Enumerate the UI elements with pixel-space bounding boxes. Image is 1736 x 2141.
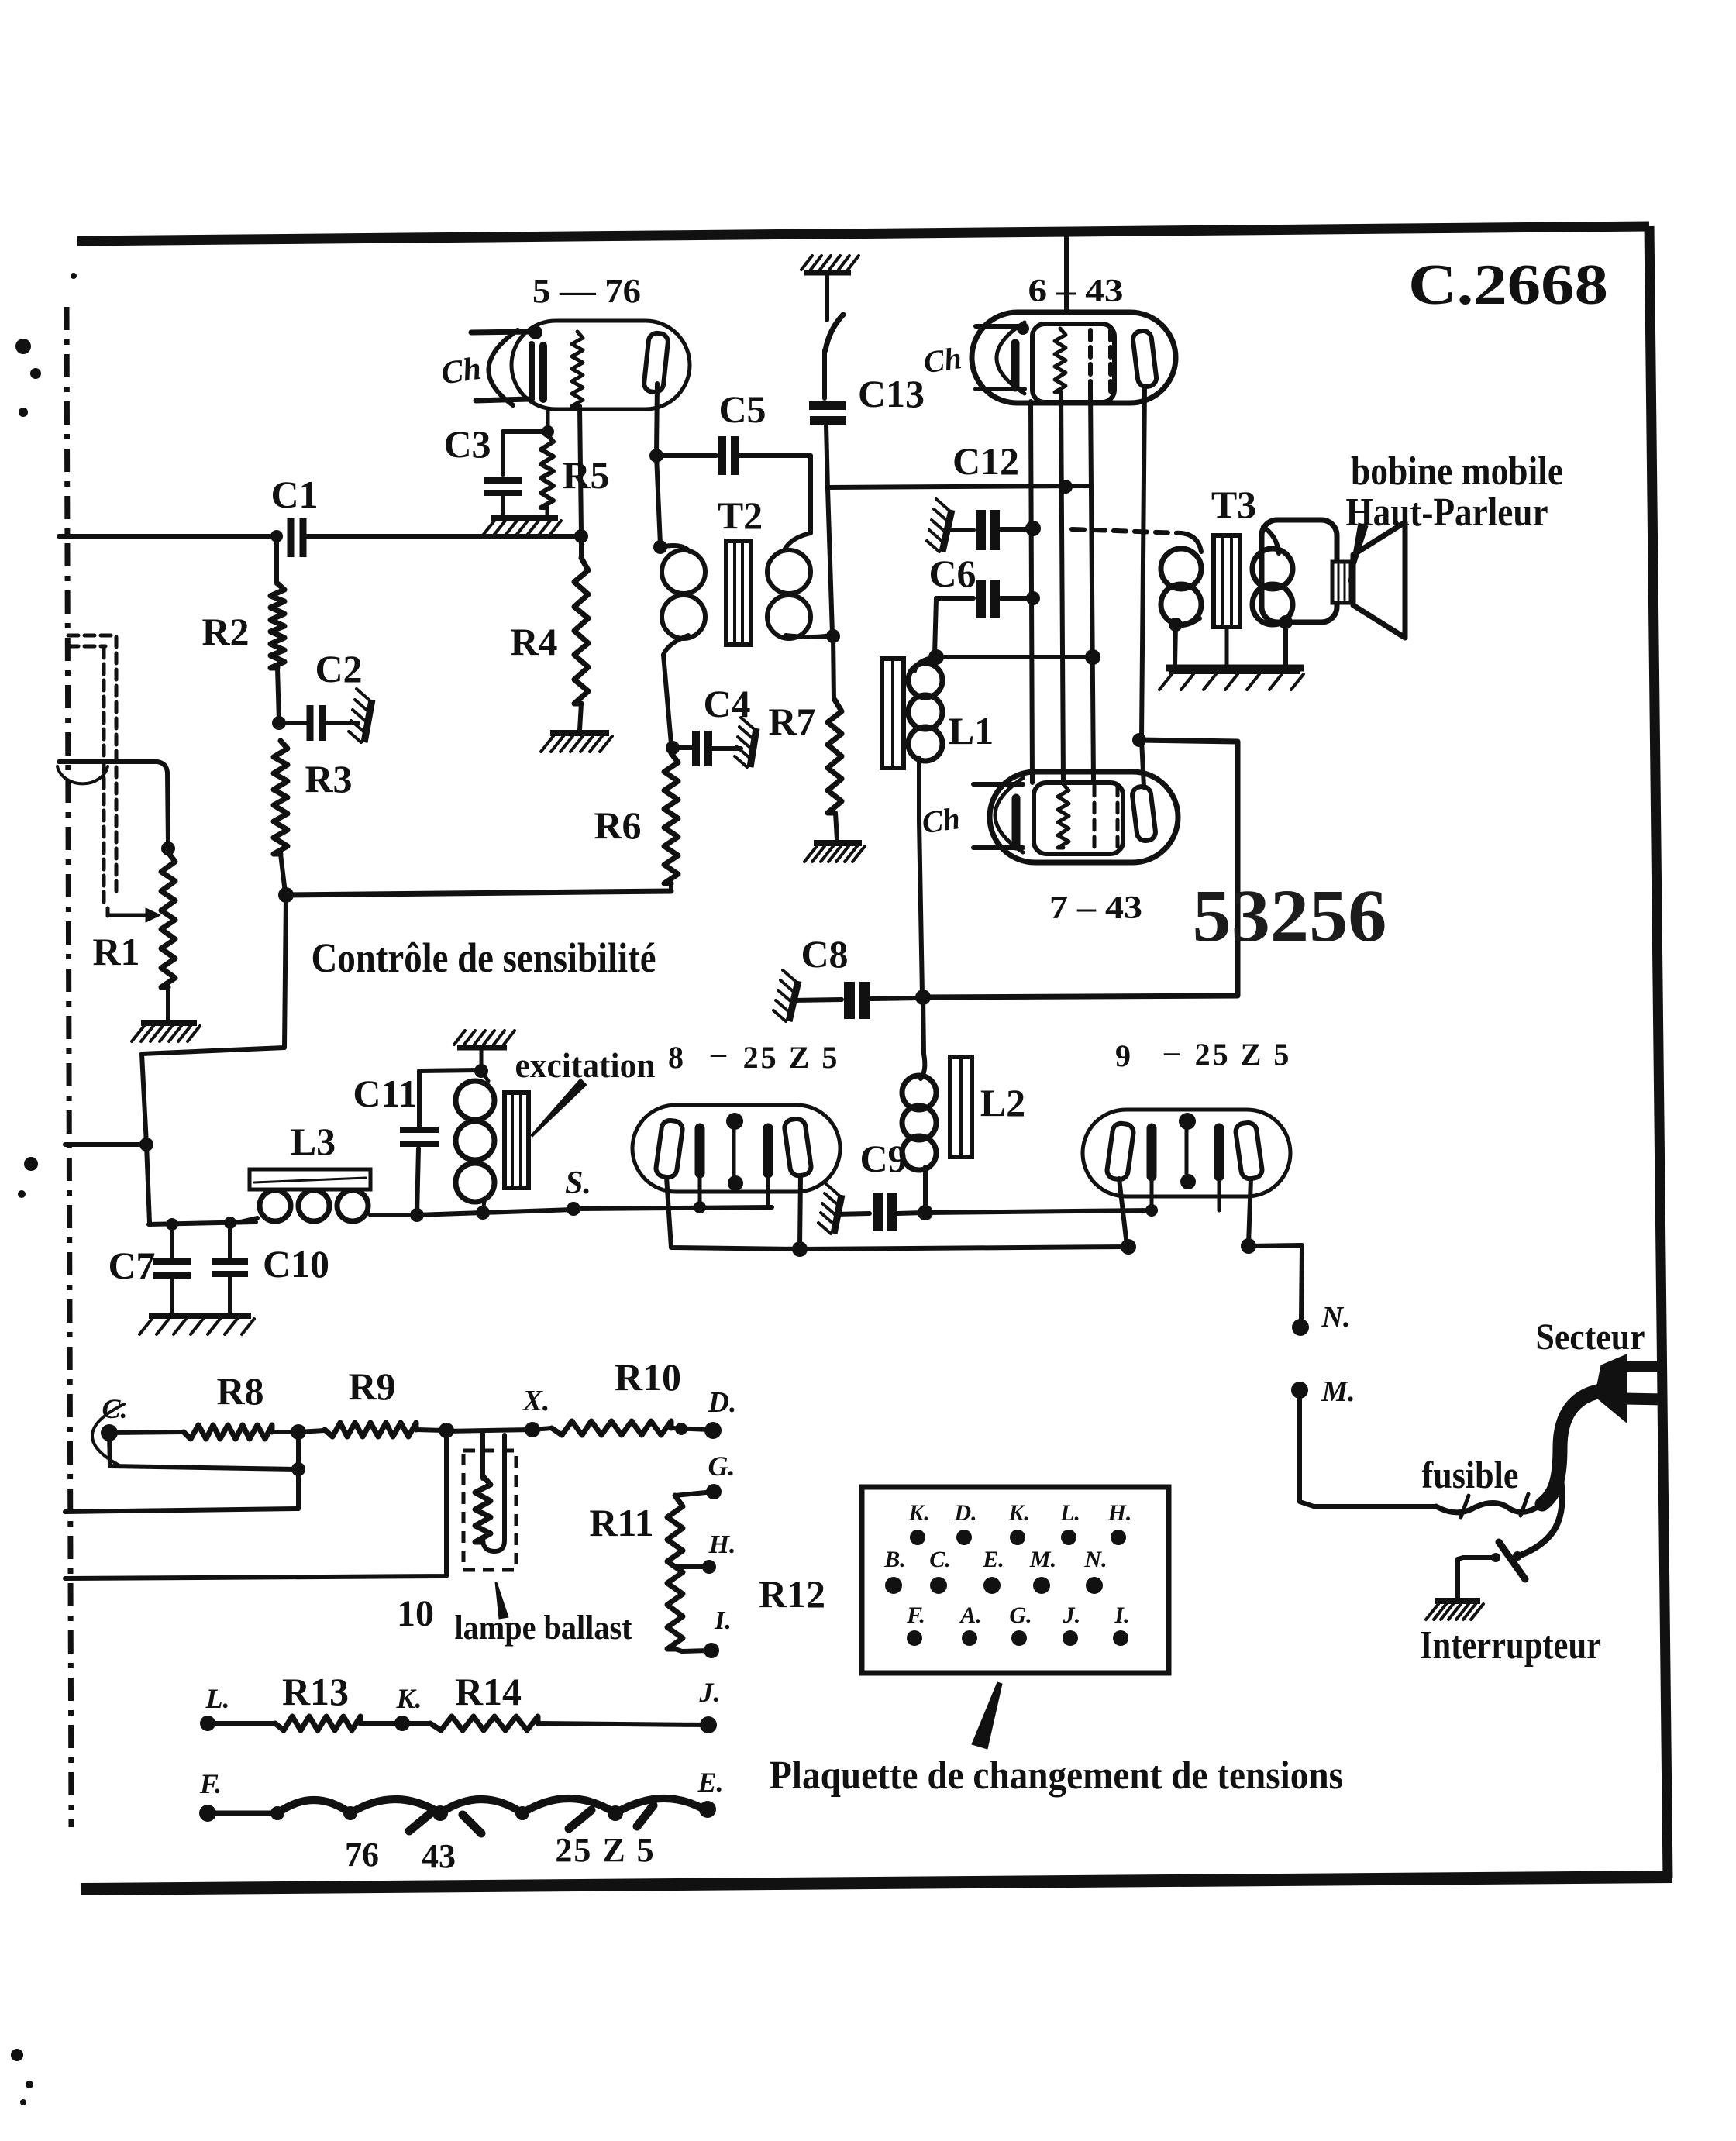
wire R2 to C2 node xyxy=(277,668,279,721)
node D terminal xyxy=(704,1422,722,1439)
svg-text:R2: R2 xyxy=(201,610,249,653)
label 76 xyxy=(345,1836,379,1874)
wire R1 to ground xyxy=(166,987,170,1020)
switch blade C13 xyxy=(825,315,843,350)
node L1 top xyxy=(928,649,944,665)
svg-text:K.: K. xyxy=(395,1683,422,1714)
node box corner xyxy=(1132,733,1146,747)
wire V5 heater down xyxy=(580,406,581,533)
tube V7 heater xyxy=(1058,784,1069,848)
node R1 top xyxy=(161,842,175,855)
plug secteur xyxy=(1595,1354,1665,1423)
wire cathode from tube xyxy=(546,411,550,432)
node E terminal xyxy=(699,1801,716,1818)
svg-text:F.: F. xyxy=(199,1768,222,1799)
voice coil frame xyxy=(1262,520,1337,622)
node T2 primary top xyxy=(653,540,667,554)
wire C1 junction down xyxy=(274,536,279,583)
wire plate down xyxy=(656,384,657,453)
ground bar C4 xyxy=(735,718,756,767)
label J. xyxy=(699,1677,721,1708)
wire V8 left plate down xyxy=(666,1177,800,1249)
wire bottom return xyxy=(65,1430,446,1578)
tube V7 pins dashed xyxy=(1094,786,1118,848)
tube V7 grid lines xyxy=(973,784,1023,848)
margin ink specks xyxy=(11,273,77,2105)
svg-text:K.: K. xyxy=(908,1500,930,1526)
label 7-43 xyxy=(1049,890,1142,926)
wire V6 heater down xyxy=(1061,392,1063,783)
wire top to tube6 xyxy=(1064,232,1069,313)
node L terminal xyxy=(200,1716,215,1731)
node C7 top xyxy=(166,1218,178,1231)
wire T3 primary gnd xyxy=(1175,625,1176,665)
wire bias bus xyxy=(286,891,671,895)
svg-text:–: – xyxy=(1163,1034,1180,1069)
svg-text:R6: R6 xyxy=(594,804,641,847)
resistor R14 xyxy=(402,1716,705,1730)
svg-text:R4: R4 xyxy=(510,620,557,663)
wire bus to S xyxy=(483,1210,573,1213)
node C8 junction xyxy=(915,990,931,1005)
svg-text:C10: C10 xyxy=(263,1242,329,1286)
wire V8 heater pins xyxy=(694,1173,768,1213)
ballast arrow xyxy=(495,1582,508,1619)
label Controle xyxy=(312,935,656,981)
svg-text:T2: T2 xyxy=(718,494,763,537)
svg-text:L2: L2 xyxy=(980,1081,1025,1124)
ground below C7 C10 xyxy=(139,1316,254,1334)
tube V7 grid arc xyxy=(995,778,1023,852)
node C10 top xyxy=(224,1217,236,1229)
label 9-25Z5 xyxy=(1115,1034,1291,1073)
svg-text:X.: X. xyxy=(522,1385,550,1417)
tube V6 grid lines xyxy=(976,322,1029,389)
label Ch V6 xyxy=(921,340,964,380)
node R8 R9 xyxy=(291,1424,306,1440)
wire switch to C13 xyxy=(822,350,827,398)
capacitor C9 xyxy=(835,1193,924,1231)
tube V8 envelope xyxy=(632,1105,840,1192)
ground bar C2 xyxy=(349,689,372,742)
wire C5 to T2 secondary xyxy=(808,456,813,532)
antenna hook arc xyxy=(57,766,108,783)
label R11 xyxy=(589,1501,653,1544)
voice coil bar xyxy=(1332,562,1351,603)
cord to switch xyxy=(1521,1469,1562,1555)
svg-text:–: – xyxy=(710,1035,727,1070)
svg-text:L.: L. xyxy=(1059,1500,1080,1526)
svg-text:I.: I. xyxy=(1114,1602,1129,1628)
transformer T2 primary xyxy=(660,546,705,655)
speaker pointer xyxy=(1348,523,1368,582)
tube V6 heater xyxy=(1055,329,1066,392)
wire V6 pin3 down xyxy=(1090,391,1094,783)
resistor R11 xyxy=(667,1492,714,1651)
resistor R1 xyxy=(161,852,175,987)
svg-text:N.: N. xyxy=(1083,1547,1107,1572)
tube V6 grid arc xyxy=(997,322,1025,394)
node excitation top xyxy=(474,1064,488,1078)
label excitation xyxy=(515,1045,656,1085)
label H. xyxy=(708,1530,736,1559)
lamp ballast loop xyxy=(475,1431,505,1551)
speaker horn xyxy=(1353,522,1405,638)
svg-text:R9: R9 xyxy=(348,1365,395,1408)
wire plates bus xyxy=(800,1247,1128,1249)
svg-text:bobine mobile: bobine mobile xyxy=(1351,449,1563,494)
capacitor C4 xyxy=(673,682,751,766)
svg-text:8: 8 xyxy=(668,1040,684,1075)
wire switch to ground xyxy=(1458,1558,1463,1598)
wire C6 down xyxy=(935,598,936,655)
wire H tap xyxy=(675,1564,707,1569)
wire top input xyxy=(59,534,274,539)
wire box bottom to L2 xyxy=(923,997,924,1054)
node plate junction xyxy=(649,449,663,463)
tube V9 pin bars xyxy=(1152,1128,1219,1176)
svg-text:R14: R14 xyxy=(455,1670,522,1713)
wire antenna lower xyxy=(59,762,168,845)
svg-text:E.: E. xyxy=(697,1767,723,1798)
capacitor C12 xyxy=(947,510,1041,550)
label 6-43 xyxy=(1028,274,1124,309)
capacitor C10 xyxy=(212,1223,329,1313)
terminal C arc xyxy=(92,1404,124,1466)
tube V5 heater xyxy=(572,332,583,406)
transformer T3 secondary xyxy=(1252,527,1293,625)
resistor R7 element xyxy=(828,636,842,840)
plaquette box xyxy=(862,1487,1169,1673)
svg-text:C3: C3 xyxy=(443,422,491,466)
svg-text:T3: T3 xyxy=(1211,483,1256,526)
node T2 secondary bottom xyxy=(826,629,840,643)
svg-text:J.: J. xyxy=(699,1677,721,1708)
label R2 xyxy=(201,610,249,653)
tube V6 plate xyxy=(1132,330,1158,387)
tube V8 left plate xyxy=(655,1120,684,1179)
mains cord xyxy=(1542,1390,1607,1504)
label 5-76 xyxy=(532,272,641,310)
resistor R3 xyxy=(274,741,288,854)
wire ballast top xyxy=(446,1430,532,1431)
node R6 top xyxy=(666,741,680,755)
field coil excitation xyxy=(456,1071,494,1213)
tube V8 right plate xyxy=(784,1118,812,1177)
svg-text:Ch: Ch xyxy=(921,340,964,380)
wire C lower xyxy=(109,1433,298,1469)
wire S to tube8 xyxy=(573,1207,772,1209)
label Ch V7 xyxy=(920,800,963,840)
label M. xyxy=(1321,1375,1355,1408)
node T3 primary bottom xyxy=(1169,618,1183,632)
node S terminal xyxy=(567,1202,580,1216)
tube V6 inner shield xyxy=(1032,324,1114,402)
svg-text:S.: S. xyxy=(565,1165,591,1201)
transformer T3 core xyxy=(1214,535,1240,665)
svg-text:Ch: Ch xyxy=(439,351,484,392)
node C1 left junction xyxy=(270,530,283,542)
wire M to fuse xyxy=(1300,1395,1436,1506)
heater string xyxy=(208,1799,705,1821)
node V9 right plate xyxy=(1241,1238,1256,1254)
svg-text:F.: F. xyxy=(906,1602,925,1628)
lamp ballast box dashed xyxy=(463,1451,516,1570)
wire C1 to R4 junction xyxy=(307,534,580,539)
wire V9 heater pins xyxy=(1145,1176,1219,1217)
ground below C3 R5 xyxy=(482,518,561,536)
node C12 grid xyxy=(1059,480,1073,494)
label C6 xyxy=(928,552,976,595)
ground top C13 xyxy=(801,256,859,273)
svg-text:6 – 43: 6 – 43 xyxy=(1028,274,1124,309)
node V9 left plate xyxy=(1121,1239,1136,1255)
resistor R5 xyxy=(541,435,553,515)
label lampe ballast xyxy=(455,1609,632,1647)
capacitor C13 xyxy=(809,401,846,425)
capacitor C5 xyxy=(656,387,811,475)
label L3 xyxy=(291,1120,336,1163)
ground bar C9 xyxy=(818,1184,842,1234)
label C. xyxy=(102,1393,127,1424)
svg-text:25 Z 5: 25 Z 5 xyxy=(743,1040,840,1075)
wire V6 plate down xyxy=(1142,387,1145,738)
label C11 xyxy=(353,1072,417,1115)
ground bar C8 xyxy=(773,970,798,1021)
node H terminal xyxy=(702,1560,716,1574)
tube V7 envelope xyxy=(990,772,1178,862)
wire to N xyxy=(1249,1245,1302,1319)
svg-text:9: 9 xyxy=(1115,1038,1131,1073)
tube V5 grid arc xyxy=(488,330,518,405)
svg-text:C5: C5 xyxy=(718,387,766,431)
plaquette terminals xyxy=(883,1500,1131,1646)
ground below R4 xyxy=(541,733,612,752)
transformer T2 secondary xyxy=(767,533,831,639)
tube V9 center pin xyxy=(1179,1113,1196,1189)
tube V9 envelope xyxy=(1083,1110,1290,1196)
tube V6 envelope xyxy=(972,312,1176,403)
tube V7 plate xyxy=(1131,740,1156,842)
label R3 xyxy=(305,757,352,800)
label T2 xyxy=(718,494,763,537)
svg-text:E.: E. xyxy=(982,1547,1004,1572)
tube V5 grid cap lines xyxy=(471,325,542,401)
ground above excitation xyxy=(454,1031,515,1069)
svg-text:H.: H. xyxy=(708,1530,736,1559)
svg-text:C8: C8 xyxy=(801,932,848,976)
svg-text:D.: D. xyxy=(708,1386,737,1419)
label K. xyxy=(395,1683,422,1714)
label Secteur xyxy=(1536,1317,1645,1358)
svg-text:10: 10 xyxy=(397,1593,434,1634)
node excitation bottom xyxy=(476,1206,490,1220)
inductor L3 coil xyxy=(240,1190,417,1222)
label R5 xyxy=(562,453,609,497)
tube V7 plate bar xyxy=(1012,798,1021,846)
svg-text:R3: R3 xyxy=(305,757,352,800)
node C terminal xyxy=(101,1424,118,1441)
resistor R8 xyxy=(109,1425,296,1439)
svg-text:C13: C13 xyxy=(858,372,925,415)
tube V6 plate bar xyxy=(1011,343,1020,387)
ground below R1 xyxy=(132,1023,200,1041)
svg-text:Contrôle de sensibilité: Contrôle de sensibilité xyxy=(312,935,656,981)
tube V8 center pin xyxy=(726,1113,743,1191)
label E. xyxy=(697,1767,723,1798)
label fusible xyxy=(1422,1453,1519,1496)
node I terminal xyxy=(704,1643,719,1658)
label C8 xyxy=(801,932,848,976)
transformer T3 primary xyxy=(1161,533,1201,625)
inductor L2 coil xyxy=(902,1054,936,1210)
svg-text:D.: D. xyxy=(953,1500,976,1526)
ground bar C12 xyxy=(927,499,952,552)
resistor R4 xyxy=(574,536,588,730)
excitation arrow xyxy=(531,1079,587,1137)
svg-text:R11: R11 xyxy=(589,1501,653,1544)
node ballast left xyxy=(439,1423,454,1438)
label L1 xyxy=(949,709,994,752)
svg-text:43: 43 xyxy=(422,1837,456,1875)
resistor R2 xyxy=(270,583,284,668)
svg-text:C11: C11 xyxy=(353,1072,417,1115)
node F terminal xyxy=(199,1805,216,1822)
label Interrupteur xyxy=(1420,1623,1601,1668)
tube V5 plate xyxy=(643,332,669,393)
node V8 plates xyxy=(792,1241,808,1257)
wire speaker gnd xyxy=(1283,622,1288,665)
svg-text:R10: R10 xyxy=(615,1355,681,1399)
label S. xyxy=(565,1165,591,1201)
wire I link xyxy=(682,1650,708,1651)
tube V5 grid bars xyxy=(532,344,543,399)
arrow to R1 wiper xyxy=(108,908,160,922)
label R10 xyxy=(615,1355,681,1399)
wire ground to switch xyxy=(825,273,829,320)
border frame right xyxy=(1649,226,1668,1878)
fuse fusible xyxy=(1436,1494,1542,1517)
svg-text:C6: C6 xyxy=(928,552,976,595)
svg-text:C12: C12 xyxy=(952,439,1019,483)
capacitor C3 xyxy=(443,422,548,513)
ground interrupteur xyxy=(1426,1601,1483,1620)
resistor R13 xyxy=(208,1716,399,1730)
svg-text:R12: R12 xyxy=(759,1572,825,1616)
node V5 cathode xyxy=(542,425,554,438)
field core bar xyxy=(505,1093,529,1188)
svg-text:M.: M. xyxy=(1321,1375,1355,1408)
svg-text:R7: R7 xyxy=(768,700,815,743)
svg-text:7 – 43: 7 – 43 xyxy=(1049,890,1142,926)
chassis dash-dot left border xyxy=(67,307,71,1827)
wire V8 right plate down xyxy=(800,1175,801,1248)
label R8 xyxy=(216,1369,263,1413)
svg-text:C.: C. xyxy=(929,1547,951,1572)
ground below R7 xyxy=(804,843,865,862)
svg-text:Plaquette de changement de ten: Plaquette de changement de tensions xyxy=(770,1754,1343,1798)
label R1 xyxy=(92,930,139,973)
plaquette arrow xyxy=(972,1682,1002,1749)
wire bus to excitation xyxy=(417,1213,482,1215)
svg-text:lampe ballast: lampe ballast xyxy=(455,1609,632,1647)
node speaker gnd xyxy=(1279,615,1293,629)
svg-text:5 — 76: 5 — 76 xyxy=(532,272,641,310)
node heater tap xyxy=(1085,649,1100,665)
capacitor C2 xyxy=(279,647,363,741)
title C.2668 xyxy=(1408,253,1608,317)
label T3 xyxy=(1211,483,1256,526)
tube V6 pins dashed xyxy=(1090,330,1111,397)
border frame bottom xyxy=(81,1877,1672,1889)
label F. xyxy=(199,1768,222,1799)
svg-text:R5: R5 xyxy=(562,453,609,497)
svg-text:H.: H. xyxy=(1107,1500,1132,1526)
capacitor C8 xyxy=(792,982,922,1019)
svg-text:C9: C9 xyxy=(859,1137,907,1180)
capacitor C7 xyxy=(108,1224,191,1313)
svg-text:C1: C1 xyxy=(270,473,318,516)
svg-text:N.: N. xyxy=(1321,1301,1351,1334)
label R13 xyxy=(282,1670,349,1713)
node R4 top xyxy=(574,529,588,543)
tick marks 25Z5 xyxy=(569,1805,653,1829)
node sensitivity junction xyxy=(278,887,294,903)
node stub junction xyxy=(139,1138,153,1151)
wire tap to chassis xyxy=(65,1509,298,1512)
label R12 xyxy=(759,1572,825,1616)
wire tap link xyxy=(296,1432,301,1509)
label 10 xyxy=(397,1593,434,1634)
ground T3 speaker xyxy=(1159,668,1304,690)
svg-text:R8: R8 xyxy=(216,1369,263,1413)
wire C13 line down xyxy=(828,488,832,634)
label R14 xyxy=(455,1670,522,1713)
tick marks 43 xyxy=(409,1812,481,1833)
svg-text:K.: K. xyxy=(1007,1500,1030,1526)
wire V6 pin1 down xyxy=(1031,401,1032,783)
wire C6 node right xyxy=(936,655,1093,659)
antenna dashed lead pair xyxy=(68,635,116,905)
label Ch V5 xyxy=(439,351,484,392)
tube V7 inner shield xyxy=(1034,783,1123,854)
inductor L3 slab xyxy=(250,1169,370,1189)
inductor L1 core xyxy=(882,659,904,768)
node M terminal xyxy=(1291,1382,1308,1399)
svg-text:C2: C2 xyxy=(315,647,362,690)
wire V9 left plate down xyxy=(1119,1179,1127,1245)
label 43 xyxy=(422,1837,456,1875)
label R6 xyxy=(594,804,641,847)
svg-text:L.: L. xyxy=(205,1683,230,1714)
wire C12 to T3 dashed xyxy=(1072,529,1181,533)
label 8-25Z5 xyxy=(668,1035,839,1075)
label N. xyxy=(1321,1301,1351,1334)
tube V8 pin bars xyxy=(700,1128,768,1173)
capacitor C6 xyxy=(936,580,1040,618)
inductor L1 coil xyxy=(908,657,942,821)
resistor R9 xyxy=(298,1423,444,1437)
wire R3 to node xyxy=(281,854,285,893)
node X terminal xyxy=(525,1422,540,1437)
border frame top xyxy=(77,226,1649,241)
svg-text:25 Z 5: 25 Z 5 xyxy=(1195,1037,1292,1072)
resistor R6 xyxy=(664,753,678,891)
label 25 Z 5 xyxy=(555,1831,655,1869)
transformer T2 core xyxy=(726,541,751,645)
wire T2 primary to R6 node xyxy=(663,655,671,744)
node J terminal xyxy=(700,1716,717,1733)
